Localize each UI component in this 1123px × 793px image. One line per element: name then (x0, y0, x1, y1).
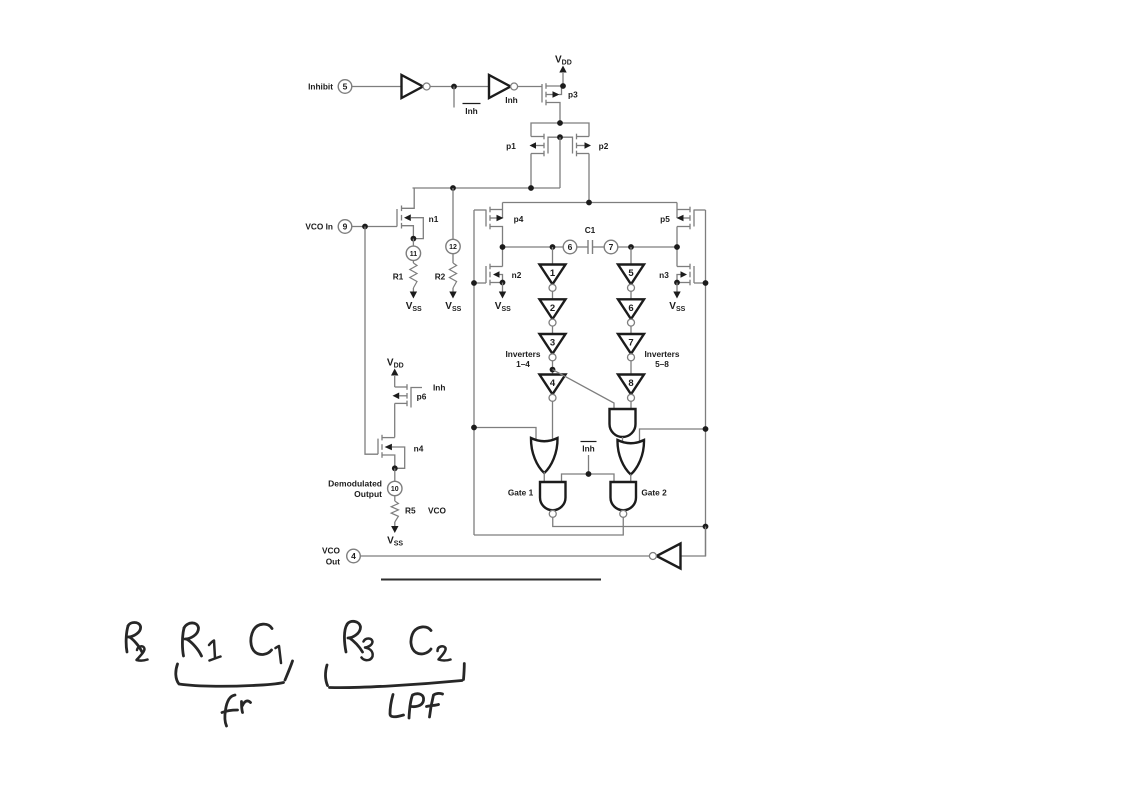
transistor p4 drain stub (490, 227, 503, 248)
svg-text:4: 4 (351, 551, 356, 561)
figure baseline rule (381, 579, 601, 581)
label p4 (514, 214, 524, 224)
svg-text:p3: p3 (568, 90, 578, 100)
pin 9 terminal (338, 220, 352, 234)
wire right rail (705, 210, 707, 556)
label p2 (599, 141, 609, 151)
wire AND output into OR gate 2 (622, 437, 624, 442)
handwritten R2 subscript (137, 646, 148, 660)
label n4 (414, 444, 424, 454)
transistor p4 bulk arrow (490, 215, 504, 222)
svg-text:p5: p5 (660, 214, 670, 224)
transistor p3 gate bar (541, 84, 543, 103)
pin 4 terminal (347, 549, 361, 563)
wire n1 drain row (413, 187, 561, 189)
transistor n3 gate bar (693, 266, 695, 283)
handwritten brace LPF (326, 664, 465, 688)
node p3 drain on source bar (557, 120, 563, 126)
node right rail OR tap (703, 426, 709, 432)
node inverter5 tap (628, 244, 634, 250)
transistor p4 channel (489, 207, 491, 230)
transistor p2 bulk arrow (577, 142, 592, 149)
transistor p4 source stub (490, 203, 503, 219)
transistor p1 bulk arrow (530, 142, 545, 149)
wire pin12 to R2 (452, 253, 454, 263)
svg-text:5–8: 5–8 (655, 359, 669, 369)
transistor n2 source stub (490, 282, 503, 284)
ground VSS under R5 (387, 522, 403, 547)
svg-text:VDD: VDD (555, 55, 572, 67)
wire OR1 output to Gate 1 (543, 472, 545, 482)
wire output inverter to pin4 (360, 555, 649, 557)
handwritten fr label (222, 695, 251, 726)
svg-text:12: 12 (449, 244, 457, 251)
svg-text:VCO: VCO (428, 506, 447, 516)
transistor p3 channel (545, 83, 547, 105)
wire inverter 1 to inverter 2 (552, 291, 554, 299)
svg-text:p6: p6 (417, 392, 427, 402)
handwritten LPF label (390, 693, 443, 718)
and-gate A (above Gate 2) (610, 409, 636, 437)
transistor p4 gate bar (485, 210, 487, 227)
svg-text:Inh: Inh (505, 95, 517, 105)
transistor n2 gate lead (474, 282, 486, 284)
ground VSS under n2 (495, 283, 511, 313)
wire p1-p2 gate crossbar (548, 137, 573, 153)
wire pin10 to R5 (394, 496, 396, 501)
wire Gate 2 output to left rail (474, 517, 623, 535)
inverter 6 (618, 299, 644, 326)
node Gate1 output on right rail (703, 524, 709, 530)
or-gate 1 (left) (531, 438, 558, 473)
transistor p5 source stub (677, 203, 690, 219)
transistor p5 bulk arrow (677, 215, 691, 222)
inverter 4 (540, 375, 566, 402)
net label Inh-bar (463, 104, 481, 117)
power VDD at p6 (387, 358, 404, 388)
wire inverter 4 to OR gate 1 (552, 401, 554, 438)
node n3 gate on right rail (703, 280, 709, 286)
handwritten C1 (251, 624, 272, 654)
svg-text:R5: R5 (405, 506, 416, 516)
transistor n2 channel (489, 264, 491, 286)
svg-text:p4: p4 (514, 214, 524, 224)
wire p4-p5 source row (503, 202, 678, 204)
transistor n2 gate bar (485, 266, 487, 283)
power VDD at p3 (555, 55, 572, 87)
wire pin7 to p5 drain (618, 246, 677, 248)
wire mirror gate node down (559, 137, 561, 188)
wire OR2 output to Gate 2 (630, 474, 632, 482)
pin 11 terminal (406, 246, 420, 260)
svg-text:Inh: Inh (465, 106, 477, 116)
inverter B (inhibit buffer 2) (489, 75, 518, 98)
wire inverter 5 to inverter 6 (630, 291, 632, 299)
wire pin7 node to inverter 5 (630, 247, 632, 265)
transistor p5 drain stub (677, 227, 690, 248)
svg-text:VSS: VSS (387, 536, 403, 548)
transistor p6 bulk arrow (393, 393, 408, 400)
label p3 (568, 90, 578, 100)
svg-text:1–4: 1–4 (516, 359, 530, 369)
label p6 (417, 392, 427, 402)
net Inh-bar between gates (581, 442, 597, 475)
inverter 8 (618, 375, 644, 402)
wire inverter 3 to inverter 4 (552, 361, 554, 375)
transistor p2 channel (576, 134, 578, 157)
label p5 (660, 214, 670, 224)
label Gate 2 (641, 488, 667, 498)
wire VCO In to n4 gate (365, 227, 378, 455)
transistor n2 drain stub (490, 247, 503, 267)
handwritten C1 subscript (276, 646, 282, 663)
wire p1 drain down (530, 154, 532, 189)
label Inverters 5-8 (644, 349, 679, 369)
node R2 tap on drain row (450, 185, 456, 191)
label Inverters 1-4 (505, 349, 540, 369)
inverter A (inhibit buffer 1) (402, 75, 431, 98)
handwritten C2 subscript (438, 646, 451, 660)
svg-text:4: 4 (550, 378, 556, 389)
transistor p3 bulk arrow (546, 87, 562, 98)
wire Inh-bar to gate inputs (562, 474, 615, 482)
node VCO In junction (362, 224, 368, 230)
output inverter (649, 544, 680, 569)
svg-text:Out: Out (326, 557, 341, 567)
node left rail OR tap (471, 425, 477, 431)
svg-text:11: 11 (410, 251, 418, 258)
pin 6 terminal (563, 240, 577, 254)
svg-text:Gate 2: Gate 2 (641, 488, 667, 498)
svg-text:VSS: VSS (669, 301, 685, 313)
node p5 drain junction (674, 244, 680, 250)
transistor n4 gate bar (377, 439, 379, 455)
transistor p5 channel (689, 207, 691, 230)
svg-text:VSS: VSS (406, 301, 422, 313)
svg-text:Inhibit: Inhibit (308, 82, 333, 92)
transistor p5 gate bar (693, 210, 695, 227)
svg-text:9: 9 (343, 222, 348, 232)
svg-text:Output: Output (354, 489, 382, 499)
svg-text:7: 7 (628, 338, 633, 349)
transistor n4 channel (381, 435, 383, 458)
ground VSS under R1 (406, 288, 422, 313)
transistor p6 gate bar (411, 388, 422, 408)
node inverter1 tap (550, 244, 556, 250)
inverter 3 (540, 334, 566, 361)
transistor p5 gate lead (694, 209, 706, 211)
svg-text:7: 7 (609, 242, 614, 252)
svg-text:VCO: VCO (322, 546, 341, 556)
or-gate 2 (right) (617, 440, 644, 475)
node gate crossbar junction (557, 134, 563, 140)
wire to pin10 (394, 468, 396, 481)
label p1 (506, 141, 516, 151)
wire right rail to OR gate 2 input (640, 429, 706, 442)
net label Inh at p6 (433, 383, 445, 393)
node p1 drain junction (528, 185, 534, 191)
svg-text:10: 10 (391, 486, 399, 493)
node Inh-bar junction (586, 471, 592, 477)
ground VSS under R2 (445, 288, 461, 313)
wire Inh-bar stub (453, 87, 455, 108)
wire inverter 6 to inverter 7 (630, 326, 632, 334)
resistor R1 (393, 263, 417, 288)
svg-text:VDD: VDD (387, 358, 404, 370)
nand Gate 1 (540, 482, 566, 517)
svg-text:p2: p2 (599, 141, 609, 151)
nand Gate 2 (611, 482, 637, 517)
transistor n1 source stub (402, 226, 414, 239)
transistor n1 gate bar (396, 209, 398, 227)
handwritten R1 (182, 623, 201, 656)
wire R2 tap down (452, 188, 454, 240)
wire C1 to pin7 (593, 246, 605, 248)
wire pin9 to n1 gate (352, 226, 397, 228)
svg-text:5: 5 (628, 268, 634, 279)
node n2 source junction (500, 280, 506, 286)
transistor n4 drain stub (382, 437, 395, 439)
inverter 1 (540, 265, 566, 292)
svg-text:6: 6 (568, 242, 573, 252)
resistor R5 (391, 501, 416, 522)
transistor n3 source stub (677, 282, 690, 284)
svg-text:Inh: Inh (433, 383, 445, 393)
transistor n4 source stub (382, 455, 395, 468)
transistor p1 drain stub (531, 153, 544, 155)
wire p4 drain to pin6 (503, 246, 564, 248)
svg-text:R2: R2 (435, 272, 446, 282)
svg-text:n1: n1 (429, 214, 439, 224)
transistor p1 source stub (531, 136, 544, 138)
node Demodulated Output label (328, 479, 382, 500)
transistor n3 drain stub (677, 247, 690, 267)
wire source bar p1-p2 (531, 123, 589, 137)
label Gate 1 (508, 488, 534, 498)
svg-text:Inverters: Inverters (505, 349, 540, 359)
transistor p1 channel (543, 134, 545, 157)
wire pin6 to C1 (577, 246, 588, 248)
transistor p6 source stub (395, 386, 407, 388)
transistor n1 channel (401, 206, 403, 229)
svg-text:3: 3 (550, 338, 555, 349)
wire left rail (473, 210, 475, 535)
svg-text:1: 1 (550, 268, 556, 279)
svg-text:8: 8 (628, 378, 633, 389)
net label Inh at inverter B (505, 95, 517, 105)
resistor R2 (435, 263, 457, 288)
svg-text:p1: p1 (506, 141, 516, 151)
label n2 (512, 270, 522, 280)
wire p2 drain down (588, 154, 590, 203)
svg-text:Inverters: Inverters (644, 349, 679, 359)
transistor p3 drain stub (546, 103, 560, 124)
handwritten brace fr (176, 661, 293, 686)
wire inverter 7 to inverter 8 (630, 361, 632, 375)
transistor n2 bulk arrow (493, 271, 503, 282)
svg-text:C1: C1 (585, 225, 596, 235)
svg-text:n2: n2 (512, 270, 522, 280)
capacitor C1 (585, 225, 596, 254)
node demodulated output junction (392, 465, 398, 471)
svg-text:6: 6 (628, 303, 633, 314)
pin 10 terminal (388, 481, 402, 495)
svg-text:n4: n4 (414, 444, 424, 454)
svg-text:Demodulated: Demodulated (328, 479, 382, 489)
transistor p6 drain stub (395, 403, 407, 437)
svg-text:VSS: VSS (495, 301, 511, 313)
svg-text:VSS: VSS (445, 301, 461, 313)
handwritten R1 subscript (209, 641, 221, 661)
transistor n4 bulk arrow (385, 444, 405, 469)
transistor p2 drain stub (577, 153, 590, 155)
svg-text:2: 2 (550, 303, 555, 314)
node VCO In label (305, 222, 333, 232)
pin 12 terminal (446, 239, 460, 253)
wire pin5 to inverter A (352, 86, 402, 88)
handwritten R3 (344, 621, 362, 652)
label n3 (659, 270, 669, 280)
label n1 (429, 214, 439, 224)
transistor n3 channel (689, 264, 691, 286)
transistor n3 gate lead (694, 282, 706, 284)
wire Gate 1 output to right rail (553, 517, 706, 526)
wire inverter 2 to inverter 3 (552, 326, 554, 334)
transistor p6 channel (406, 384, 408, 406)
wire pin6 node to inverter 1 (552, 247, 554, 265)
label VCO block (428, 506, 447, 516)
transistor p3 source stub (546, 85, 563, 87)
ground VSS under n3 (669, 283, 685, 313)
node n3 source junction (674, 280, 680, 286)
node Inhibit input label (308, 82, 333, 92)
transistor p4 gate lead (474, 209, 486, 211)
transistor n1 drain stub (402, 188, 415, 208)
node n2 gate on left rail (471, 280, 477, 286)
svg-text:n3: n3 (659, 270, 669, 280)
svg-text:Gate 1: Gate 1 (508, 488, 534, 498)
wire n1 source to pin11 (412, 239, 414, 247)
node p2 drain junction (586, 200, 592, 206)
wire right rail to output inverter (681, 527, 706, 557)
inverter 2 (540, 299, 566, 326)
svg-text:5: 5 (343, 82, 348, 92)
wire left rail to OR gate 1 input (474, 428, 536, 441)
node n1 source junction (411, 236, 417, 242)
wire pin11 to R1 (412, 261, 414, 264)
handwritten C2 (411, 627, 431, 654)
transistor n3 bulk arrow (677, 271, 687, 282)
wire inverter A to inverter B (430, 86, 489, 88)
node p4 drain junction (500, 244, 506, 250)
pin 7 terminal (604, 240, 618, 254)
transistor n1 bulk arrow (404, 214, 423, 238)
wire inverter 8 to AND gate (630, 401, 632, 409)
handwritten R2 (126, 623, 142, 653)
inverter 5 (618, 265, 644, 292)
handwritten R3 subscript (362, 639, 373, 661)
svg-text:R1: R1 (393, 272, 404, 282)
pin 5 terminal (338, 80, 352, 94)
wire diagonal inv3 node to AND gate (553, 370, 615, 410)
inverter 7 (618, 334, 644, 361)
node inverter 3-4 junction (550, 367, 556, 373)
node VCO Out label (322, 546, 341, 567)
svg-text:VCO In: VCO In (305, 222, 333, 232)
wire inverter B to p3 gate (518, 86, 542, 88)
node Inh-bar tap junction (451, 84, 457, 90)
node p3 source junction (560, 83, 566, 89)
transistor p2 source stub (577, 136, 590, 138)
svg-text:Inh: Inh (582, 444, 594, 454)
